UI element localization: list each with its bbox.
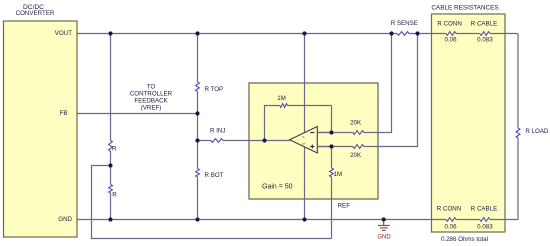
- node VOUT/R TOP: [195, 31, 199, 35]
- node GND/R BOT: [195, 217, 199, 221]
- svg-text:(VREF): (VREF): [141, 105, 162, 112]
- resistor R SENSE zigzag: [397, 32, 409, 36]
- svg-text:0.083: 0.083: [477, 224, 493, 231]
- resistor R LOAD zigzag: [516, 128, 520, 138]
- resistor R CABLE top zigzag: [480, 32, 490, 36]
- node VOUT/sense left: [389, 31, 393, 35]
- node op-amp output: [262, 138, 266, 142]
- svg-text:20K: 20K: [350, 152, 362, 159]
- node GND symbol: [382, 217, 386, 221]
- wire injection return path: [92, 166, 332, 239]
- wire R LOAD right vertical: [517, 34, 519, 220]
- svg-text:GND: GND: [377, 235, 391, 241]
- node divider tap: [108, 163, 112, 167]
- wire GND net y=219: [77, 219, 518, 221]
- wire divider branch x=110.8: [110, 34, 112, 220]
- op-amp U1 box: [249, 83, 378, 199]
- resistor R INJ zigzag: [211, 139, 223, 143]
- node VOUT/supply: [302, 31, 306, 35]
- node V- input: [329, 130, 333, 134]
- wire R INJ net y=140: [198, 140, 265, 142]
- svg-text:R: R: [112, 145, 117, 152]
- node V+ input: [329, 144, 333, 148]
- node VOUT/sense right: [415, 31, 419, 35]
- op-amp + sign: [310, 145, 314, 149]
- resistor R CONN bottom zigzag: [446, 218, 456, 222]
- svg-text:R INJ: R INJ: [210, 128, 225, 135]
- svg-text:0.286 Ohms total: 0.286 Ohms total: [441, 236, 488, 243]
- svg-text:20K: 20K: [350, 120, 362, 127]
- wire REF pin down to GND net: [304, 145, 306, 220]
- svg-text:R CONN: R CONN: [437, 20, 461, 27]
- resistor 1M vertical zigzag: [330, 168, 334, 177]
- cable resistances box: [432, 14, 506, 232]
- wire V+ input to bottom 20K to right sense: [317, 34, 417, 147]
- resistor R (upper divider) zigzag: [109, 141, 113, 152]
- svg-text:CONVERTER: CONVERTER: [16, 10, 55, 17]
- op-amp U1 triangle: [290, 127, 318, 154]
- wire supply from VOUT into op-amp: [304, 34, 306, 141]
- wire 1M vertical branch x=331: [331, 147, 333, 239]
- svg-text:R BOT: R BOT: [205, 172, 224, 179]
- svg-text:0.083: 0.083: [477, 37, 493, 44]
- resistor 1M feedback zigzag: [280, 104, 288, 108]
- svg-text:REF: REF: [338, 203, 351, 210]
- svg-text:R TOP: R TOP: [205, 86, 224, 93]
- svg-text:GND: GND: [58, 216, 72, 223]
- svg-text:R LOAD: R LOAD: [525, 128, 549, 135]
- svg-text:FB: FB: [60, 110, 68, 117]
- svg-text:Gain = 50: Gain = 50: [262, 183, 293, 190]
- svg-text:0.06: 0.06: [444, 224, 457, 231]
- svg-text:R CABLE: R CABLE: [471, 206, 497, 213]
- wire R BOT branch x=197: [197, 114, 199, 220]
- resistor R BOT zigzag: [196, 169, 200, 178]
- svg-text:FEEDBACK: FEEDBACK: [134, 98, 168, 105]
- svg-text:R CABLE: R CABLE: [471, 20, 497, 27]
- svg-text:TO: TO: [147, 84, 156, 91]
- svg-text:v+: v+: [302, 142, 306, 146]
- node GND/divider: [108, 217, 112, 221]
- wire feedback loop via 1M: [265, 106, 332, 141]
- svg-text:R SENSE: R SENSE: [391, 20, 418, 27]
- svg-text:0.06: 0.06: [444, 37, 457, 44]
- resistor 20K bottom zigzag: [353, 145, 364, 149]
- wire FB net y=113: [77, 113, 198, 115]
- DC/DC converter box: [4, 21, 78, 237]
- node GND/REF: [302, 217, 306, 221]
- svg-text:1M: 1M: [334, 171, 343, 178]
- resistor R CABLE bottom zigzag: [480, 218, 490, 222]
- ground symbol: [378, 221, 390, 230]
- svg-text:CONTROLLER: CONTROLLER: [130, 91, 173, 98]
- svg-text:R CONN: R CONN: [437, 206, 461, 213]
- op-amp - sign: [310, 132, 314, 134]
- svg-text:R: R: [112, 191, 117, 198]
- wire VOUT net y=33: [77, 33, 518, 35]
- node FB: [195, 111, 199, 115]
- resistor 20K top zigzag: [353, 131, 364, 135]
- svg-text:CABLE RESISTANCES: CABLE RESISTANCES: [431, 4, 498, 11]
- node VOUT/divider: [108, 31, 112, 35]
- resistor R TOP zigzag: [196, 82, 200, 91]
- wire R TOP branch x=197: [197, 34, 199, 114]
- resistor R CONN top zigzag: [446, 32, 456, 36]
- op-amp input stubs: [265, 133, 332, 147]
- svg-text:1M: 1M: [277, 95, 286, 102]
- svg-text:VOUT: VOUT: [55, 30, 72, 37]
- resistor R (lower divider) zigzag: [109, 185, 113, 194]
- node R INJ left: [195, 138, 199, 142]
- wire V- input to top 20K to left sense: [317, 34, 391, 133]
